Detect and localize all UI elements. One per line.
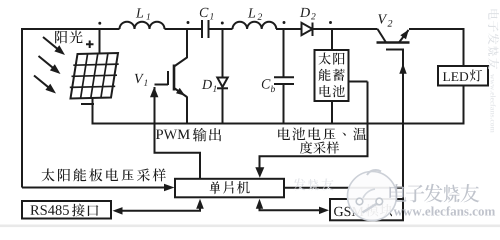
label C1 — [200, 8, 209, 17]
wire: battery sample line down/left to MCU with down arrow — [260, 82, 368, 169]
capacitor Cb (horizontal plates) — [283, 29, 285, 77]
wire: top rail C1 to L2 — [209, 28, 233, 30]
watermark: faint ghost near MCU — [293, 178, 333, 190]
watermark: elecfans logo circle — [348, 170, 397, 221]
node: V1 collector junction dot — [187, 21, 190, 24]
label sunlight 阳光 — [55, 31, 82, 44]
battery box 太阳能蓄电池 — [315, 50, 349, 101]
sun ray arrow 3 — [34, 76, 56, 94]
GSM module box GSM模块 — [330, 199, 403, 220]
sun ray arrow 2 — [39, 56, 61, 74]
node: D1 tap junction dot — [221, 22, 224, 25]
wire: top rail D2 to V2 — [313, 28, 378, 30]
wire: top rail L1 to C1 — [165, 28, 203, 30]
label D1 — [202, 80, 212, 89]
watermark: 电子发烧友 text — [389, 184, 479, 203]
wire: top rail L2 to D2 — [276, 28, 302, 30]
wire: V2 gate drive vertical (MCU line up to V2 gate, up arrow) — [402, 50, 404, 200]
node: Cb tap junction dot — [283, 21, 286, 24]
label PWM输出 — [156, 130, 190, 140]
label D2 — [300, 8, 310, 17]
label 太阳能板电压采样 — [42, 169, 166, 182]
wire: battery sense stub — [349, 81, 368, 83]
solar panel (tilted grid) — [70, 53, 119, 99]
label 度采样 — [300, 141, 339, 153]
inductor L1 (3 humps) — [120, 22, 165, 29]
wire: solar panel + lead — [99, 29, 101, 54]
label L1 — [136, 8, 143, 17]
watermark: vertical strip at right edge — [488, 9, 499, 132]
diode D2 (triangle + cathode bar) — [302, 23, 313, 35]
wire: top rail left segment (panel + to L1) — [22, 28, 120, 30]
diode D1 (pointing down, cathode bar) — [222, 29, 224, 78]
transistor V2 (IGBT, horizontal) — [377, 29, 410, 56]
transistor V1 (IGBT) — [155, 29, 188, 124]
wire: top rail V2 to right corner, down to LED — [409, 29, 464, 66]
MCU box 单片机 — [175, 179, 284, 198]
RS485 interface box RS485接口 — [22, 201, 111, 219]
wire: battery top lead — [331, 29, 333, 50]
wire: MCU to V2 gate line horizontal — [284, 187, 403, 189]
label L2 — [248, 8, 255, 17]
label V2 — [378, 14, 387, 23]
wire: LED bottom lead — [463, 86, 465, 124]
label Cb — [262, 79, 271, 88]
node: solar panel tap junction dot — [98, 22, 101, 25]
LED lamp box LED灯 — [438, 66, 488, 86]
capacitor C1 (two vertical plates) — [202, 20, 209, 38]
wire: GSM link (bidirectional arrows) — [260, 208, 322, 210]
watermark: www.elecfans.com — [394, 206, 496, 215]
label - (panel negative) — [81, 103, 94, 105]
node: battery tap junction dot — [329, 21, 332, 24]
wire: solar panel - lead to bottom rail — [92, 99, 94, 124]
wire: panel voltage sample into MCU (right arrow) — [22, 187, 166, 189]
inductor L2 (3 humps) — [233, 22, 277, 29]
label 电池电压、温 — [278, 128, 366, 141]
scan artifact: bottom gray band — [0, 225, 500, 228]
wire: battery bottom lead — [331, 101, 333, 124]
label + (panel positive) — [86, 41, 94, 49]
sun ray arrow 1 — [43, 37, 65, 55]
wire: RS485 link (bidirectional arrows) — [120, 208, 200, 211]
label V1 — [135, 74, 144, 83]
wire: bottom rail — [92, 123, 465, 125]
wire: left border (panel voltage sense) — [21, 28, 23, 188]
wire: PWM gate drive (MCU to V1 gate, up arrow) — [155, 87, 201, 179]
